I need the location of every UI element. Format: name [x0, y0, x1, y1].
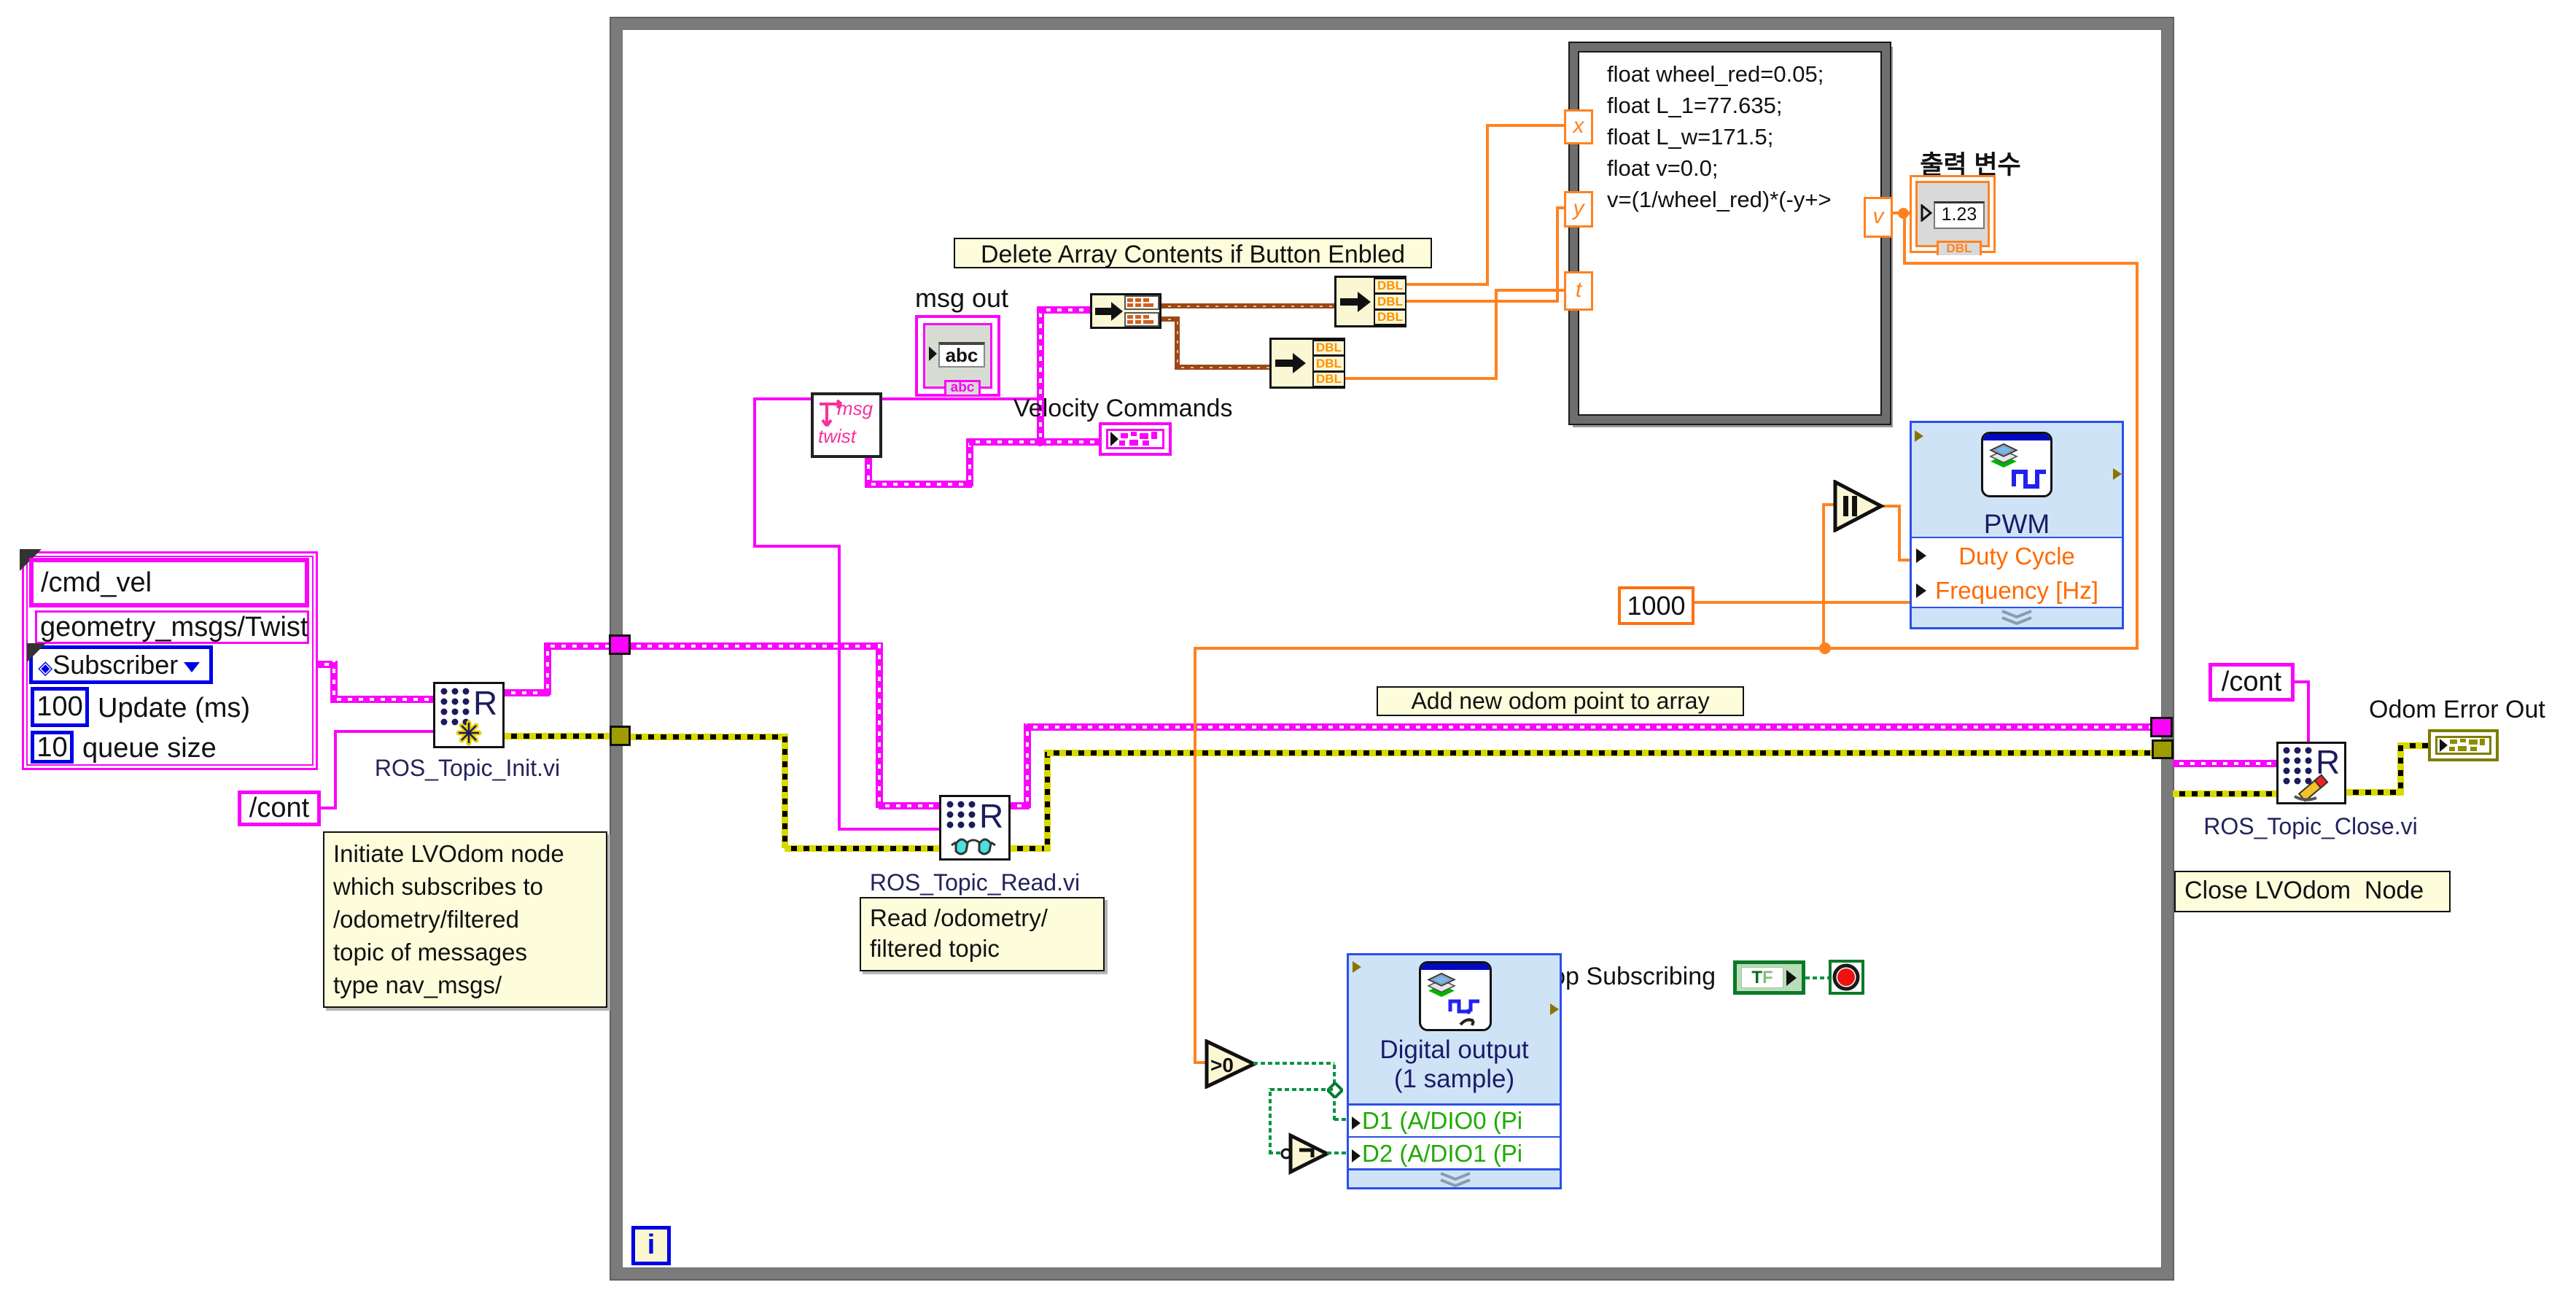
- wire: y input: [1406, 300, 1559, 303]
- 100 Update (ms): [31, 687, 89, 727]
- wire: TF to stop button: [1805, 976, 1829, 979]
- wire: long pink dashed from left tunnel to Read branch: [630, 642, 882, 650]
- wire: orange down-left to greater-than-0: [1194, 647, 1196, 1064]
- formula terminal y: [1564, 191, 1593, 228]
- Velocity Commands indicator: [1099, 422, 1172, 456]
- Add new odom label: [1377, 686, 1744, 716]
- upper bundle DBL node: [1334, 276, 1406, 327]
- Digital output icon: [1419, 961, 1492, 1031]
- /cont left constant: [238, 791, 321, 826]
- tunnel olive right: [2152, 739, 2174, 759]
- tunnel pink right: [2150, 717, 2173, 737]
- wire: pink dashed vertical down to ROS_Topic_Read: [876, 642, 883, 808]
- wire: yellow error vertical down to Read: [782, 734, 788, 848]
- wire: yellow error into Read input: [785, 845, 941, 852]
- left control cluster frame: [22, 551, 318, 770]
- ROS_Topic_Init.vi icon: [433, 682, 505, 748]
- wire: /cont left magenta string: [321, 807, 337, 809]
- DBL indicator 출력 변수: [1907, 144, 2034, 182]
- svg-text:R: R: [979, 797, 1003, 835]
- /cmd_vel string constant: [29, 558, 309, 607]
- TF boolean terminal: [1733, 960, 1805, 995]
- not node: [1277, 1133, 1330, 1175]
- wire: Read error vertical: [1044, 750, 1051, 851]
- msg out string indicator: [915, 315, 1000, 397]
- lower bundle DBL node: [1269, 338, 1345, 389]
- Delete Array Contents label: [954, 238, 1432, 268]
- wire: 1000 to PWM frequency: [1694, 601, 1911, 604]
- wire: twist output of node: [865, 458, 872, 486]
- Read note: [860, 897, 1105, 971]
- tunnel pink left: [609, 634, 631, 655]
- geometry_msgs/Twist string constant: [35, 610, 309, 644]
- junction dot velocity: [1035, 437, 1045, 446]
- wire: brown lower: [1161, 316, 1179, 322]
- wire: Init pink output: [505, 689, 550, 696]
- wire: v to DBL indicator: [1891, 211, 1923, 214]
- formula terminal v: [1864, 197, 1893, 238]
- wire: into unbundle icon: [1040, 306, 1090, 314]
- Stop Subscribing label (partially hidden): [1528, 963, 1716, 991]
- Subscriber enum: [29, 645, 213, 684]
- multiply II triangle: [1833, 480, 1886, 532]
- msg/twist convert node: [811, 392, 882, 458]
- formula terminal t: [1564, 271, 1593, 311]
- Close note: [2174, 871, 2451, 912]
- Digital output express VI: [1347, 953, 1562, 1189]
- wire: cluster to Init pink dashed: [318, 661, 336, 668]
- wire: x input: [1406, 283, 1489, 286]
- tunnel olive left: [610, 726, 631, 746]
- Initiate note: [323, 831, 607, 1008]
- unbundle icon: [1090, 293, 1161, 329]
- green junction diamond: [1327, 1082, 1343, 1098]
- svg-text:>0: >0: [1210, 1054, 1234, 1076]
- PWM icon: [1981, 432, 2052, 497]
- Odom Error Out indicator: [2428, 729, 2499, 761]
- loop iteration terminal i: [631, 1226, 671, 1265]
- wire: orange down from v junction: [1903, 211, 1906, 263]
- junction dot v: [1898, 208, 1909, 219]
- junction dot orange: [1819, 642, 1831, 654]
- Velocity Commands label: [1013, 395, 1232, 423]
- wire: Init yellow error output: [505, 733, 611, 739]
- wire: right side outside loop yellow to Close: [2173, 791, 2276, 797]
- ROS_Topic_Close.vi icon: [2276, 742, 2346, 804]
- 1000 numeric constant: [1618, 586, 1694, 625]
- wire: string from Read up to msg/twist node: [755, 397, 811, 400]
- wire: Read pink output vertical: [1024, 723, 1031, 808]
- wire: long orange horizontal: [1194, 647, 2139, 650]
- formula terminal x: [1564, 109, 1593, 144]
- PWM chevron: [1998, 610, 2036, 627]
- msg out label: [915, 283, 1008, 314]
- wire: right side outside loop pink to Close: [2173, 760, 2276, 767]
- stop button: [1829, 960, 1864, 995]
- wire: long yellow error from left tunnel: [629, 734, 786, 740]
- wire: t input: [1345, 377, 1498, 380]
- ROS_Topic_Read.vi icon: [939, 795, 1011, 861]
- wire: long yellow error to right tunnel: [1047, 750, 2153, 756]
- wire: msg out string from node to vertical: [882, 397, 1043, 400]
- wire: brown upper: [1161, 303, 1336, 308]
- svg-text:R: R: [2316, 744, 2340, 781]
- 10 queue size: [31, 731, 74, 764]
- formula node frame: [1570, 43, 1890, 424]
- wire: long pink dashed to right tunnel: [1027, 723, 2153, 731]
- greater than 0 node: [1205, 1039, 1257, 1089]
- /cont right constant: [2209, 663, 2295, 702]
- Odom Error Out label: [2369, 696, 2545, 724]
- PWM express VI: [1910, 421, 2124, 629]
- wire: Close error out: [2346, 789, 2403, 796]
- wire: green from >0: [1253, 1062, 1334, 1065]
- wire: Read pink output stub: [1011, 802, 1030, 809]
- wire: orange up to multiply: [1822, 505, 1825, 647]
- svg-text:R: R: [473, 684, 497, 722]
- wire: green branch to not: [1270, 1088, 1334, 1091]
- wire: Read error output stub: [1011, 845, 1050, 852]
- wire: green not to D2: [1327, 1152, 1349, 1154]
- wire: pink dashed into Read input: [879, 802, 942, 809]
- wire: pink dashed vertical feeding unbundle: [1037, 306, 1044, 444]
- while loop border: [611, 18, 2173, 1279]
- wire: /cont right magenta: [2295, 680, 2310, 683]
- wire: junction to Velocity Commands indicator: [1040, 438, 1099, 446]
- formula node code text: [1607, 58, 1832, 215]
- wire: multiply out to PWM duty: [1881, 505, 1901, 508]
